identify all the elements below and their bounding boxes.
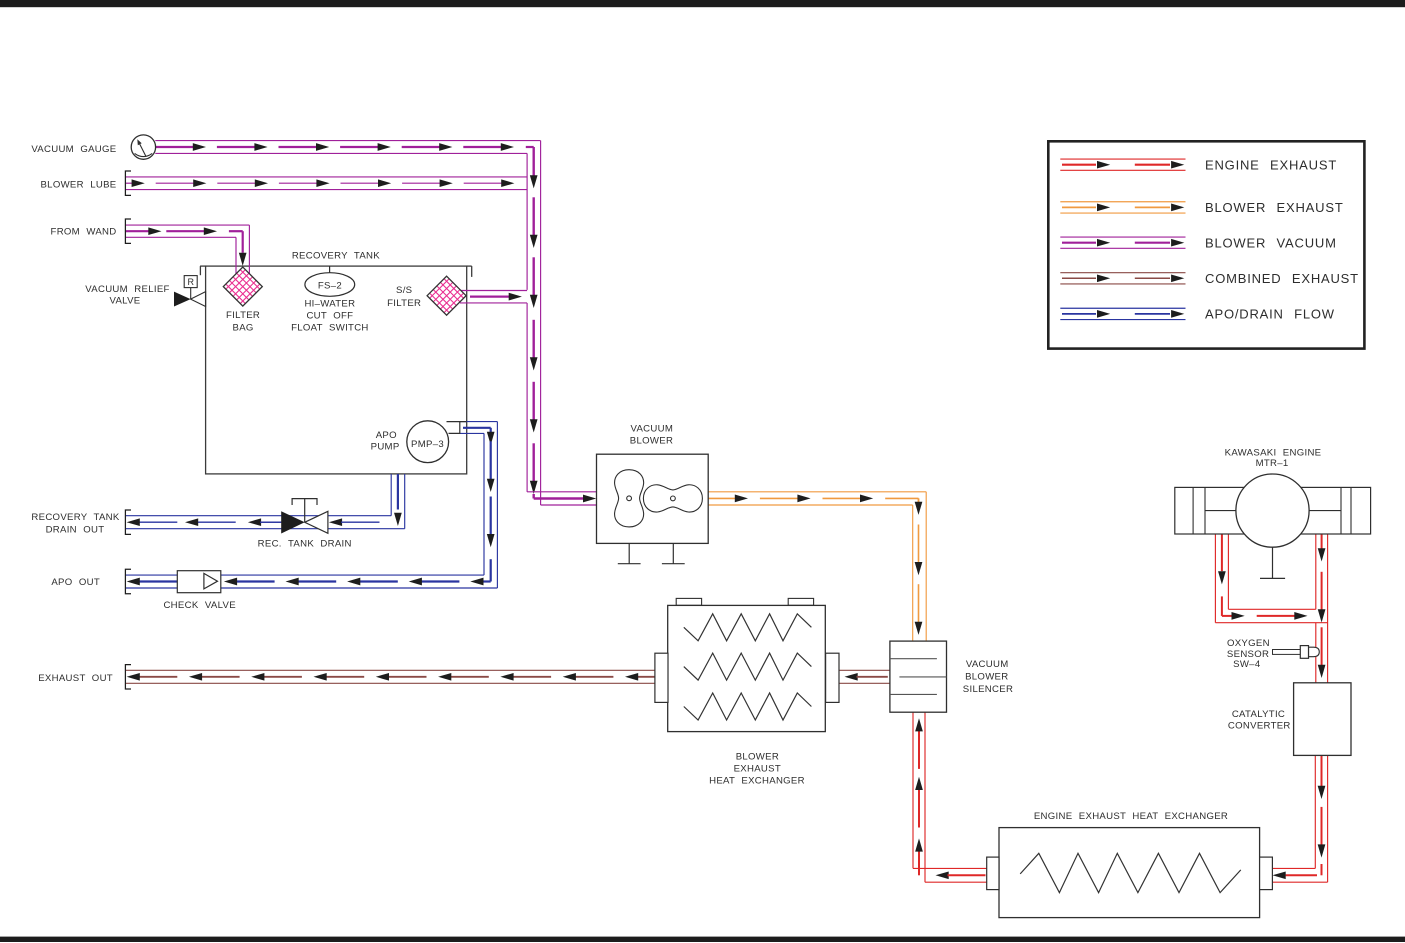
svg-text:HEAT EXCHANGER: HEAT EXCHANGER bbox=[709, 776, 805, 787]
wire: blower lube line (blower vacuum) bbox=[125, 176, 527, 178]
svg-text:BLOWER: BLOWER bbox=[965, 672, 1008, 683]
bracket: recovery tank drain out bbox=[125, 510, 131, 534]
silencer baffle lines bbox=[890, 658, 937, 660]
wire: engine exhaust left drop (engine exhaust) bbox=[1214, 534, 1216, 623]
blower exhaust heat exchanger left port bbox=[655, 653, 668, 702]
vacuum blower bbox=[597, 454, 709, 543]
svg-text:S/S: S/S bbox=[396, 285, 412, 296]
recovery tank corner tick left bbox=[200, 265, 206, 267]
float switch stem bbox=[329, 266, 331, 273]
heat exchanger coil zigzag 3 bbox=[684, 693, 812, 720]
svg-text:SILENCER: SILENCER bbox=[963, 684, 1013, 695]
svg-text:VACUUM GAUGE: VACUUM GAUGE bbox=[31, 144, 116, 155]
bottom black border bar bbox=[0, 937, 1405, 942]
wire: heat exchanger outlet horizontal left (engine exhaust) bbox=[913, 867, 987, 869]
svg-text:RECOVERY TANK: RECOVERY TANK bbox=[31, 512, 119, 523]
vacuum blower silencer bbox=[890, 641, 947, 712]
svg-text:COMBINED EXHAUST: COMBINED EXHAUST bbox=[1205, 271, 1359, 286]
svg-text:CATALYTIC: CATALYTIC bbox=[1232, 709, 1285, 720]
wire: engine exhaust bottom horizontal (engine exhaust) bbox=[1228, 608, 1315, 610]
svg-text:RECOVERY TANK: RECOVERY TANK bbox=[292, 251, 380, 262]
bracket: exhaust out bbox=[125, 665, 131, 689]
float switch FS-2 ellipse bbox=[305, 273, 355, 297]
svg-text:VALVE: VALVE bbox=[109, 296, 140, 307]
wire: catalytic converter outlet drop (engine exhaust) bbox=[1314, 755, 1316, 868]
svg-text:ENGINE EXHAUST HEAT EXCHANGER: ENGINE EXHAUST HEAT EXCHANGER bbox=[1034, 811, 1228, 822]
svg-text:REC. TANK DRAIN: REC. TANK DRAIN bbox=[258, 538, 352, 549]
svg-text:VACUUM: VACUUM bbox=[966, 659, 1009, 670]
vacuum blower left rotor lobe bbox=[615, 470, 644, 527]
rec. tank drain valve handle bbox=[304, 499, 306, 523]
wire: main vacuum vertical line (blower vacuum) bbox=[526, 153, 528, 290]
wire: heat exchanger inlet horizontal right (engine exhaust) bbox=[1273, 867, 1316, 869]
blower exhaust heat exchanger right port bbox=[826, 653, 839, 702]
svg-text:BLOWER: BLOWER bbox=[630, 436, 673, 447]
wire: apo pump drain vertical (apo/drain) bbox=[483, 433, 485, 575]
legend box bbox=[1048, 141, 1364, 348]
top black border bar bbox=[0, 0, 1405, 7]
wire: exhaust out line (combined exhaust) bbox=[125, 669, 655, 671]
legend row: APO/DRAIN FLOW bbox=[1060, 307, 1185, 309]
recovery tank corner tick right bbox=[467, 265, 472, 267]
engine exhaust heat exchanger coil zigzag bbox=[1020, 853, 1241, 892]
legend row: COMBINED EXHAUST bbox=[1060, 272, 1185, 274]
wire: apo pump outlet line (apo/drain) bbox=[460, 421, 498, 423]
svg-text:BAG: BAG bbox=[233, 323, 254, 334]
svg-text:CHECK VALVE: CHECK VALVE bbox=[163, 600, 235, 611]
svg-text:VACUUM: VACUUM bbox=[630, 424, 673, 435]
svg-text:PMP–3: PMP–3 bbox=[411, 439, 444, 450]
svg-text:KAWASAKI ENGINE: KAWASAKI ENGINE bbox=[1225, 447, 1322, 458]
svg-text:PUMP: PUMP bbox=[371, 441, 400, 452]
svg-text:SW–4: SW–4 bbox=[1233, 659, 1261, 670]
svg-text:R: R bbox=[187, 277, 194, 287]
wire: blower exhaust horizontal (blower exhaust) bbox=[708, 491, 926, 493]
kawasaki engine stand bbox=[1272, 547, 1274, 578]
kawasaki engine MTR-1 body bbox=[1175, 487, 1371, 534]
svg-text:CONVERTER: CONVERTER bbox=[1228, 721, 1291, 732]
catalytic converter bbox=[1294, 683, 1351, 756]
bracket: apo out bbox=[125, 569, 131, 593]
engine exhaust heat exchanger right port bbox=[1260, 857, 1273, 890]
svg-text:BLOWER: BLOWER bbox=[736, 752, 779, 763]
svg-text:FS–2: FS–2 bbox=[318, 280, 342, 291]
svg-text:APO: APO bbox=[376, 430, 397, 441]
check valve bbox=[177, 571, 221, 593]
heat exchanger coil zigzag 1 bbox=[684, 614, 812, 641]
vacuum blower legs bbox=[628, 543, 630, 563]
wire: engine exhaust riser to silencer (engine exhaust) bbox=[912, 712, 914, 868]
blower exhaust heat exchanger bbox=[668, 605, 826, 731]
svg-text:EXHAUST: EXHAUST bbox=[734, 764, 781, 775]
svg-text:MTR–1: MTR–1 bbox=[1256, 458, 1289, 469]
svg-text:BLOWER LUBE: BLOWER LUBE bbox=[40, 180, 116, 191]
svg-text:SENSOR: SENSOR bbox=[1227, 649, 1269, 660]
svg-text:EXHAUST OUT: EXHAUST OUT bbox=[38, 673, 113, 684]
vacuum relief valve bbox=[174, 292, 191, 307]
kawasaki engine flywheel circle bbox=[1236, 474, 1309, 547]
vacuum blower right rotor lobe bbox=[643, 485, 702, 512]
blower exhaust heat exchanger top tabs bbox=[676, 598, 701, 605]
svg-text:FROM WAND: FROM WAND bbox=[51, 226, 117, 237]
wire: vacuum line into blower (blower vacuum) bbox=[527, 491, 596, 493]
legend row: BLOWER EXHAUST bbox=[1060, 201, 1185, 203]
wire: from wand line (blower vacuum) bbox=[125, 224, 249, 226]
recovery tank bbox=[206, 266, 467, 474]
engine exhaust heat exchanger left port bbox=[987, 857, 999, 890]
wire: vacuum gauge line (blower vacuum) bbox=[155, 140, 540, 142]
svg-text:OXYGEN: OXYGEN bbox=[1227, 638, 1270, 649]
vacuum relief valve R box bbox=[190, 288, 192, 300]
legend row: BLOWER VACUUM bbox=[1060, 236, 1185, 238]
rec. tank drain valve bbox=[281, 511, 305, 533]
svg-text:HI–WATER: HI–WATER bbox=[304, 298, 355, 309]
svg-text:CUT OFF: CUT OFF bbox=[306, 310, 353, 321]
svg-text:ENGINE EXHAUST: ENGINE EXHAUST bbox=[1205, 157, 1337, 172]
apo pump PMP-3 bbox=[407, 421, 449, 463]
svg-text:BLOWER VACUUM: BLOWER VACUUM bbox=[1205, 235, 1337, 250]
svg-text:VACUUM RELIEF: VACUUM RELIEF bbox=[85, 284, 169, 295]
bracket: blower lube bbox=[125, 171, 131, 195]
wire: engine exhaust right drop (engine exhaust) bbox=[1315, 534, 1317, 609]
svg-text:DRAIN OUT: DRAIN OUT bbox=[46, 524, 105, 535]
wire: silencer to heat exchanger (combined exhaust) bbox=[839, 669, 890, 671]
svg-text:FILTER: FILTER bbox=[226, 310, 260, 321]
engine exhaust heat exchanger bbox=[999, 828, 1260, 918]
wire: apo out line (apo/drain) bbox=[125, 574, 484, 576]
heat exchanger coil zigzag 2 bbox=[684, 653, 812, 680]
bracket: from wand bbox=[125, 219, 131, 243]
wire: recovery tank drain out line (apo/drain) bbox=[125, 515, 391, 517]
svg-text:BLOWER EXHAUST: BLOWER EXHAUST bbox=[1205, 200, 1344, 215]
wire: s/s filter outlet line (blower vacuum) bbox=[460, 290, 527, 292]
svg-text:FLOAT SWITCH: FLOAT SWITCH bbox=[291, 323, 369, 334]
wire: tank drain drop (apo/drain) bbox=[390, 474, 392, 516]
svg-text:APO/DRAIN FLOW: APO/DRAIN FLOW bbox=[1205, 307, 1335, 322]
legend row: ENGINE EXHAUST bbox=[1060, 158, 1185, 160]
svg-text:APO OUT: APO OUT bbox=[51, 577, 100, 588]
wire: blower exhaust vertical to silencer (blower exhaust) bbox=[912, 505, 914, 641]
oxygen sensor SW-4 bbox=[1273, 650, 1301, 655]
vacuum gauge bbox=[131, 135, 155, 159]
svg-text:FILTER: FILTER bbox=[387, 298, 421, 309]
